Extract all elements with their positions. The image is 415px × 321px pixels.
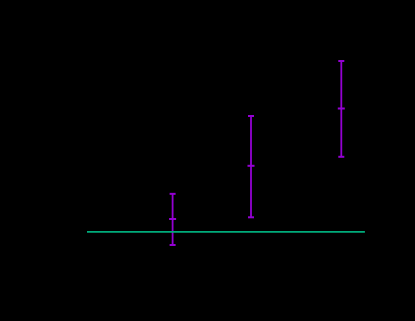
error bar 1: [169, 194, 176, 245]
error bar 3: [338, 61, 345, 157]
error bar 2: [248, 116, 255, 217]
green horizontal reference line: [87, 231, 365, 233]
